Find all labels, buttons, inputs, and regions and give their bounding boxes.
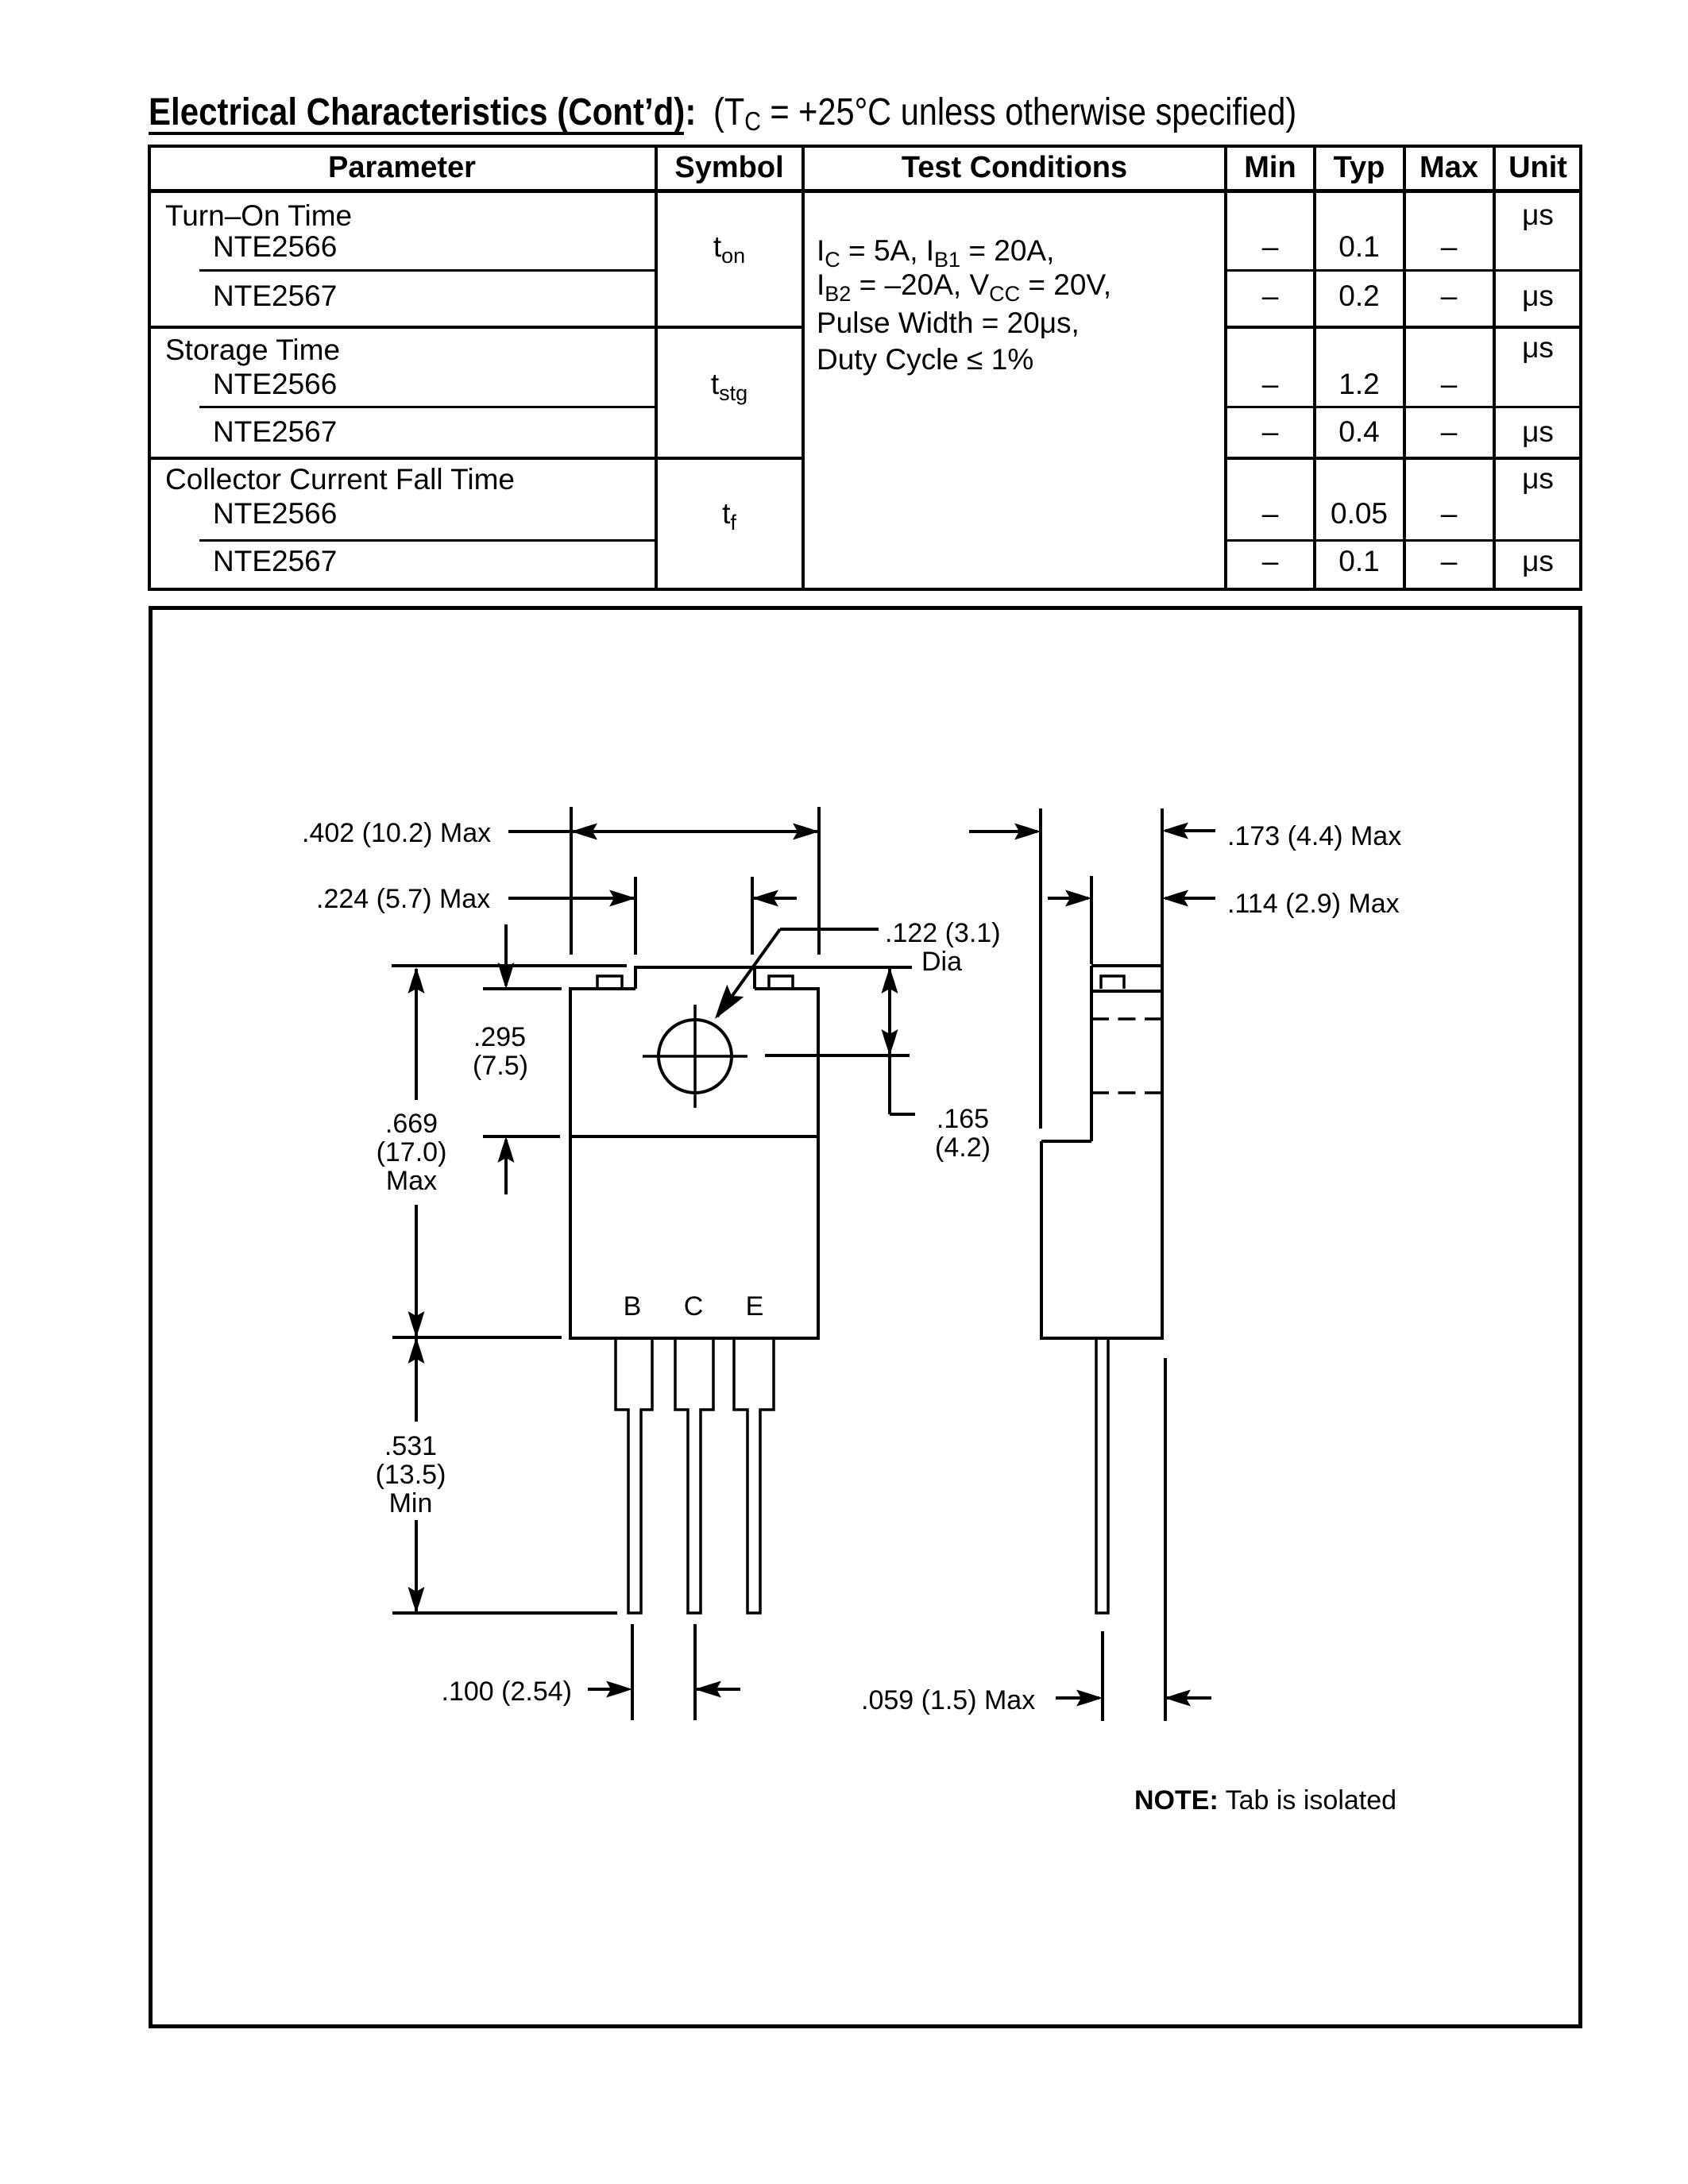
svg-text:.531: .531 (384, 1431, 437, 1461)
arrowhead .224 left (609, 890, 635, 907)
dim .402 extension line right (817, 807, 821, 955)
front view: body internal line (570, 1135, 818, 1138)
row rule group1/group2 (value cols) (1226, 326, 1582, 329)
title: Electrical Characteristics (Cont'd) (149, 94, 696, 132)
svg-text:B: B (624, 1291, 642, 1322)
mounting hole circle (659, 1020, 732, 1093)
values group2 row1 (1522, 333, 1554, 362)
arrowhead .402 left (571, 824, 597, 840)
arrowhead .122 leader (715, 985, 744, 1019)
header labels (328, 153, 476, 183)
svg-text:.114 (2.9) Max: .114 (2.9) Max (1227, 889, 1400, 919)
row rule group2 sub-separator (value cols) (1226, 406, 1582, 408)
dim .224 extension line left (634, 877, 637, 955)
row rule group1 sub-separator (value cols) (1226, 269, 1582, 272)
values group3 row1 (1522, 464, 1554, 493)
hole center reference line right (765, 1054, 910, 1057)
front view: body bottom edge (569, 1337, 820, 1340)
dim .531 shaft lower (415, 1520, 418, 1611)
leader .122 diagonal (717, 929, 780, 1017)
side view: front step (1041, 1140, 1091, 1143)
test conditions text (817, 236, 1054, 265)
min/typ/max/unit values group1 row1 (1522, 200, 1554, 230)
dim .100 arrow line right (695, 1688, 740, 1691)
side view: dim .173 extension line left (1039, 808, 1042, 1129)
dim .100 arrow line left (588, 1688, 628, 1691)
lead bottom reference line (392, 1611, 617, 1615)
arrowhead .669 bottom (408, 1311, 425, 1337)
title condition clause (713, 94, 1296, 132)
arrowhead .295 bottom (498, 1136, 515, 1163)
svg-text:(13.5): (13.5) (376, 1460, 446, 1490)
front view: body left edge (569, 989, 572, 1338)
arrowhead .402 right (793, 824, 819, 840)
arrowhead .100 right (695, 1681, 721, 1698)
dim .295 upper arrow shaft (504, 924, 508, 986)
svg-text:(7.5): (7.5) (473, 1051, 528, 1081)
front view: left shoulder (569, 987, 635, 990)
svg-text:.669: .669 (385, 1109, 438, 1139)
table header bottom rule (148, 189, 1582, 193)
arrowhead .059 left (1076, 1690, 1103, 1707)
table column divider Symbol|Test Conditions (802, 145, 805, 591)
title underline (149, 132, 684, 135)
table column divider Min|Typ (1313, 145, 1316, 591)
dim .100 extension line B (631, 1624, 634, 1720)
arrowhead .100 left (606, 1681, 632, 1698)
row rule group1 sub-separator (param col) (199, 269, 656, 272)
side view: top edge (1091, 964, 1162, 967)
side view: hidden tab dashed line upper (1091, 1017, 1162, 1021)
svg-text:.402 (10.2) Max: .402 (10.2) Max (302, 818, 491, 848)
dim .059 arrow line left (1056, 1696, 1099, 1700)
dim .173 arrow line right (1165, 829, 1215, 832)
values group1 row2 (1262, 281, 1279, 311)
table column divider Parameter|Symbol (655, 145, 658, 591)
front view: right shoulder (755, 987, 820, 990)
svg-text:C: C (684, 1291, 704, 1322)
side view: tab lower edge (1091, 990, 1162, 993)
dim .295 lower arrow shaft (504, 1140, 508, 1194)
table column divider Test Conditions|Min (1224, 145, 1227, 591)
body bottom reference segment (392, 1336, 562, 1339)
arrowhead .173 left (1014, 824, 1041, 840)
arrowhead .114 left (1065, 890, 1091, 907)
arrowhead .295 top (498, 963, 515, 989)
svg-text:.224 (5.7) Max: .224 (5.7) Max (316, 884, 490, 914)
dim .173 arrow line left (969, 830, 1037, 833)
dim .224 line left (508, 897, 635, 900)
arrowhead .059 right (1165, 1690, 1191, 1707)
table column divider Max|Unit (1493, 145, 1496, 591)
arrowhead .531 top (408, 1337, 425, 1364)
mechanical drawing outline box (151, 608, 1581, 2027)
arrowhead .669 top (408, 967, 425, 994)
front view: tab left step (634, 966, 637, 989)
arrowhead .224 right (752, 890, 778, 907)
svg-text:.059 (1.5) Max: .059 (1.5) Max (861, 1685, 1035, 1715)
dim .100 extension line C (693, 1624, 697, 1720)
side view: notch bump (1101, 976, 1124, 989)
svg-text:.173 (4.4) Max: .173 (4.4) Max (1227, 821, 1401, 851)
arrowhead .165 top (882, 967, 898, 994)
svg-text:NOTE: Tab is isolated: NOTE: Tab is isolated (1134, 1785, 1396, 1815)
dim .295 lower reference segment (483, 1135, 560, 1138)
dim .059 extension line right (1164, 1358, 1167, 1721)
dim .402 extension line left (570, 807, 573, 955)
row rule group2/group3 (value cols) (1226, 457, 1582, 460)
dim .531 shaft upper (415, 1339, 418, 1422)
dim .402 line (508, 830, 819, 833)
side view: lead outline (1096, 1338, 1108, 1613)
front view: left notch bump (597, 976, 622, 989)
side view: hidden tab dashed line lower (1091, 1091, 1162, 1094)
arrowhead .165 bottom (882, 1029, 898, 1055)
front view: tab top edge and right reference line (635, 966, 912, 969)
lead E outline (734, 1338, 774, 1613)
front view: tab right step (753, 966, 756, 989)
dim .059 arrow line right (1165, 1696, 1211, 1700)
svg-text:.295: .295 (473, 1022, 526, 1052)
svg-text:Min: Min (389, 1488, 433, 1518)
hole crosshair horizontal (643, 1055, 747, 1058)
hole crosshair vertical (693, 1005, 697, 1108)
dim .114 arrow line left (1048, 897, 1088, 900)
front view: tab top reference line (left) (392, 964, 627, 967)
row rule group2 sub-separator (param col) (199, 406, 656, 408)
row rule group2/group3 (left) (148, 457, 803, 460)
lead B outline (616, 1338, 652, 1613)
side view: front face lower (1040, 1141, 1043, 1338)
lead C outline (675, 1338, 713, 1613)
side view: back face (1161, 966, 1164, 1338)
values group3 row2 (1262, 546, 1279, 576)
dim .669 shaft upper (415, 969, 418, 1100)
table column divider Typ|Max (1403, 145, 1406, 591)
front view: right notch bump (769, 976, 793, 989)
table outer border (148, 145, 1582, 591)
dim .224 line right (752, 897, 797, 900)
dim .059 extension line below lead (1101, 1631, 1104, 1721)
svg-text:(4.2): (4.2) (935, 1133, 991, 1163)
dim .165 shaft (888, 969, 891, 1114)
svg-text:.122 (3.1): .122 (3.1) (885, 918, 1001, 948)
arrowhead .531 bottom (408, 1587, 425, 1613)
svg-text:Dia: Dia (921, 947, 962, 977)
dim .669 shaft lower (415, 1205, 418, 1336)
dim .224 extension line right (751, 877, 754, 955)
side view: dim .114 extension line middle (1090, 876, 1093, 964)
parameter column text (165, 201, 352, 230)
dim .295 upper reference segment (483, 987, 562, 990)
svg-text:Max: Max (386, 1166, 437, 1196)
svg-text:E: E (746, 1291, 764, 1322)
front view: body right edge (817, 989, 820, 1338)
symbol column text (713, 232, 745, 261)
side view: back extension line above body (1161, 808, 1164, 966)
svg-text:.100 (2.54): .100 (2.54) (442, 1677, 572, 1707)
arrowhead .173 right (1162, 823, 1188, 839)
row rule group1/group2 (left) (148, 326, 803, 329)
leader .122 horizontal (780, 928, 879, 931)
dim .165 label jog (890, 1113, 915, 1116)
arrowhead .114 right (1162, 890, 1188, 907)
values group2 row2 (1262, 417, 1279, 446)
row rule group3 sub-separator (param col) (199, 539, 656, 542)
side view: bottom edge (1040, 1337, 1164, 1340)
dim .114 arrow line right (1165, 897, 1215, 900)
row rule group3 sub-separator (value cols) (1226, 539, 1582, 542)
svg-text:.165: .165 (937, 1104, 989, 1134)
svg-text:(17.0): (17.0) (377, 1137, 447, 1167)
side view: front face upper (1090, 966, 1093, 1141)
